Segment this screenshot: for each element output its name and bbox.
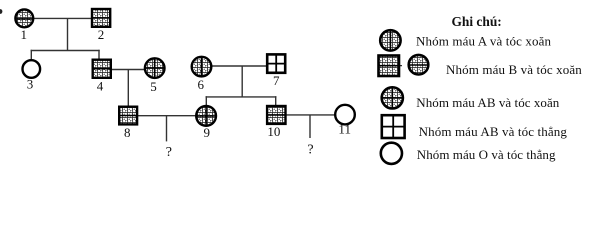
svg-text:5: 5 [150, 79, 157, 94]
wire drop to 9 [205, 96, 207, 106]
individual 8: male, blood B curly (dotted square) [119, 107, 137, 125]
wire drop to 4 [98, 50, 100, 60]
svg-text:?: ? [307, 143, 313, 158]
individual 7: male, blood AB straight (window-pane square) [267, 54, 285, 72]
individual 3: female, blood O straight (empty circle) [23, 60, 41, 78]
individual 9: female, blood AB curly (dots + cross) [196, 106, 216, 126]
legend symbol: blood A curly circle [380, 30, 400, 50]
svg-text:8: 8 [124, 125, 131, 140]
wire drop from couple 6-7 [241, 66, 243, 97]
wire drop from couple 10-11 to ? [309, 115, 311, 138]
individual 2: male, blood B curly (dotted square) [92, 9, 110, 27]
individual 6: female, blood A curly (dots + vertical midline) [192, 57, 212, 77]
wire sibling bar gen III right [206, 96, 277, 98]
wire drop from couple 8-9 to ? [166, 116, 168, 142]
svg-text:Ghi chú:: Ghi chú: [452, 14, 502, 29]
individual 10: male, blood B curly (dotted square) [267, 106, 285, 124]
svg-text:6: 6 [197, 77, 204, 92]
wire marriage line 6-7 [211, 65, 267, 67]
wire drop to 10 [275, 96, 277, 106]
svg-text:Nhóm máu B và tóc xoăn: Nhóm máu B và tóc xoăn [446, 62, 582, 77]
wire marriage line 1-2 [33, 17, 93, 19]
svg-text:10: 10 [267, 124, 280, 139]
individual 11: female, blood O straight (empty circle) [335, 105, 355, 125]
svg-text:?: ? [166, 145, 172, 160]
legend symbol: blood B curly square [379, 56, 403, 77]
svg-text:Nhóm máu A và tóc xoăn: Nhóm máu A và tóc xoăn [416, 33, 552, 48]
svg-text:3: 3 [27, 77, 34, 92]
legend symbol: blood AB curly circle [382, 87, 403, 108]
wire marriage line 4-5 [111, 69, 145, 71]
svg-text:Nhóm máu AB và tóc xoăn: Nhóm máu AB và tóc xoăn [416, 95, 559, 110]
wire marriage line 10-11 [286, 114, 336, 116]
svg-text:Nhóm máu AB và tóc thẳng: Nhóm máu AB và tóc thẳng [419, 124, 568, 139]
wire drop from couple 4-5 to 8 [127, 70, 129, 108]
svg-text:11: 11 [338, 122, 351, 137]
svg-text:1: 1 [20, 27, 27, 42]
svg-text:Nhóm máu O và tóc thẳng: Nhóm máu O và tóc thẳng [417, 147, 556, 162]
legend symbol: blood AB straight square [382, 115, 405, 138]
wire sibling bar gen II left [31, 50, 100, 52]
svg-text:9: 9 [204, 125, 211, 140]
legend symbol: blood O straight circle [381, 143, 402, 164]
stray mark left edge [0, 9, 2, 14]
individual 1: female, blood B curly (dots + horizontal midline) [15, 10, 33, 28]
individual 5: female, blood AB curly (dots + cross) [145, 58, 165, 78]
legend symbol: blood B curly circle [409, 55, 429, 75]
svg-text:4: 4 [97, 78, 104, 93]
wire marriage line 8-9 [137, 115, 196, 117]
wire drop to 3 [30, 50, 32, 61]
individual 4: male, blood B curly (dotted square) [93, 60, 111, 78]
svg-text:2: 2 [98, 27, 105, 42]
wire drop from couple 1-2 [67, 18, 69, 50]
svg-text:7: 7 [273, 73, 280, 88]
